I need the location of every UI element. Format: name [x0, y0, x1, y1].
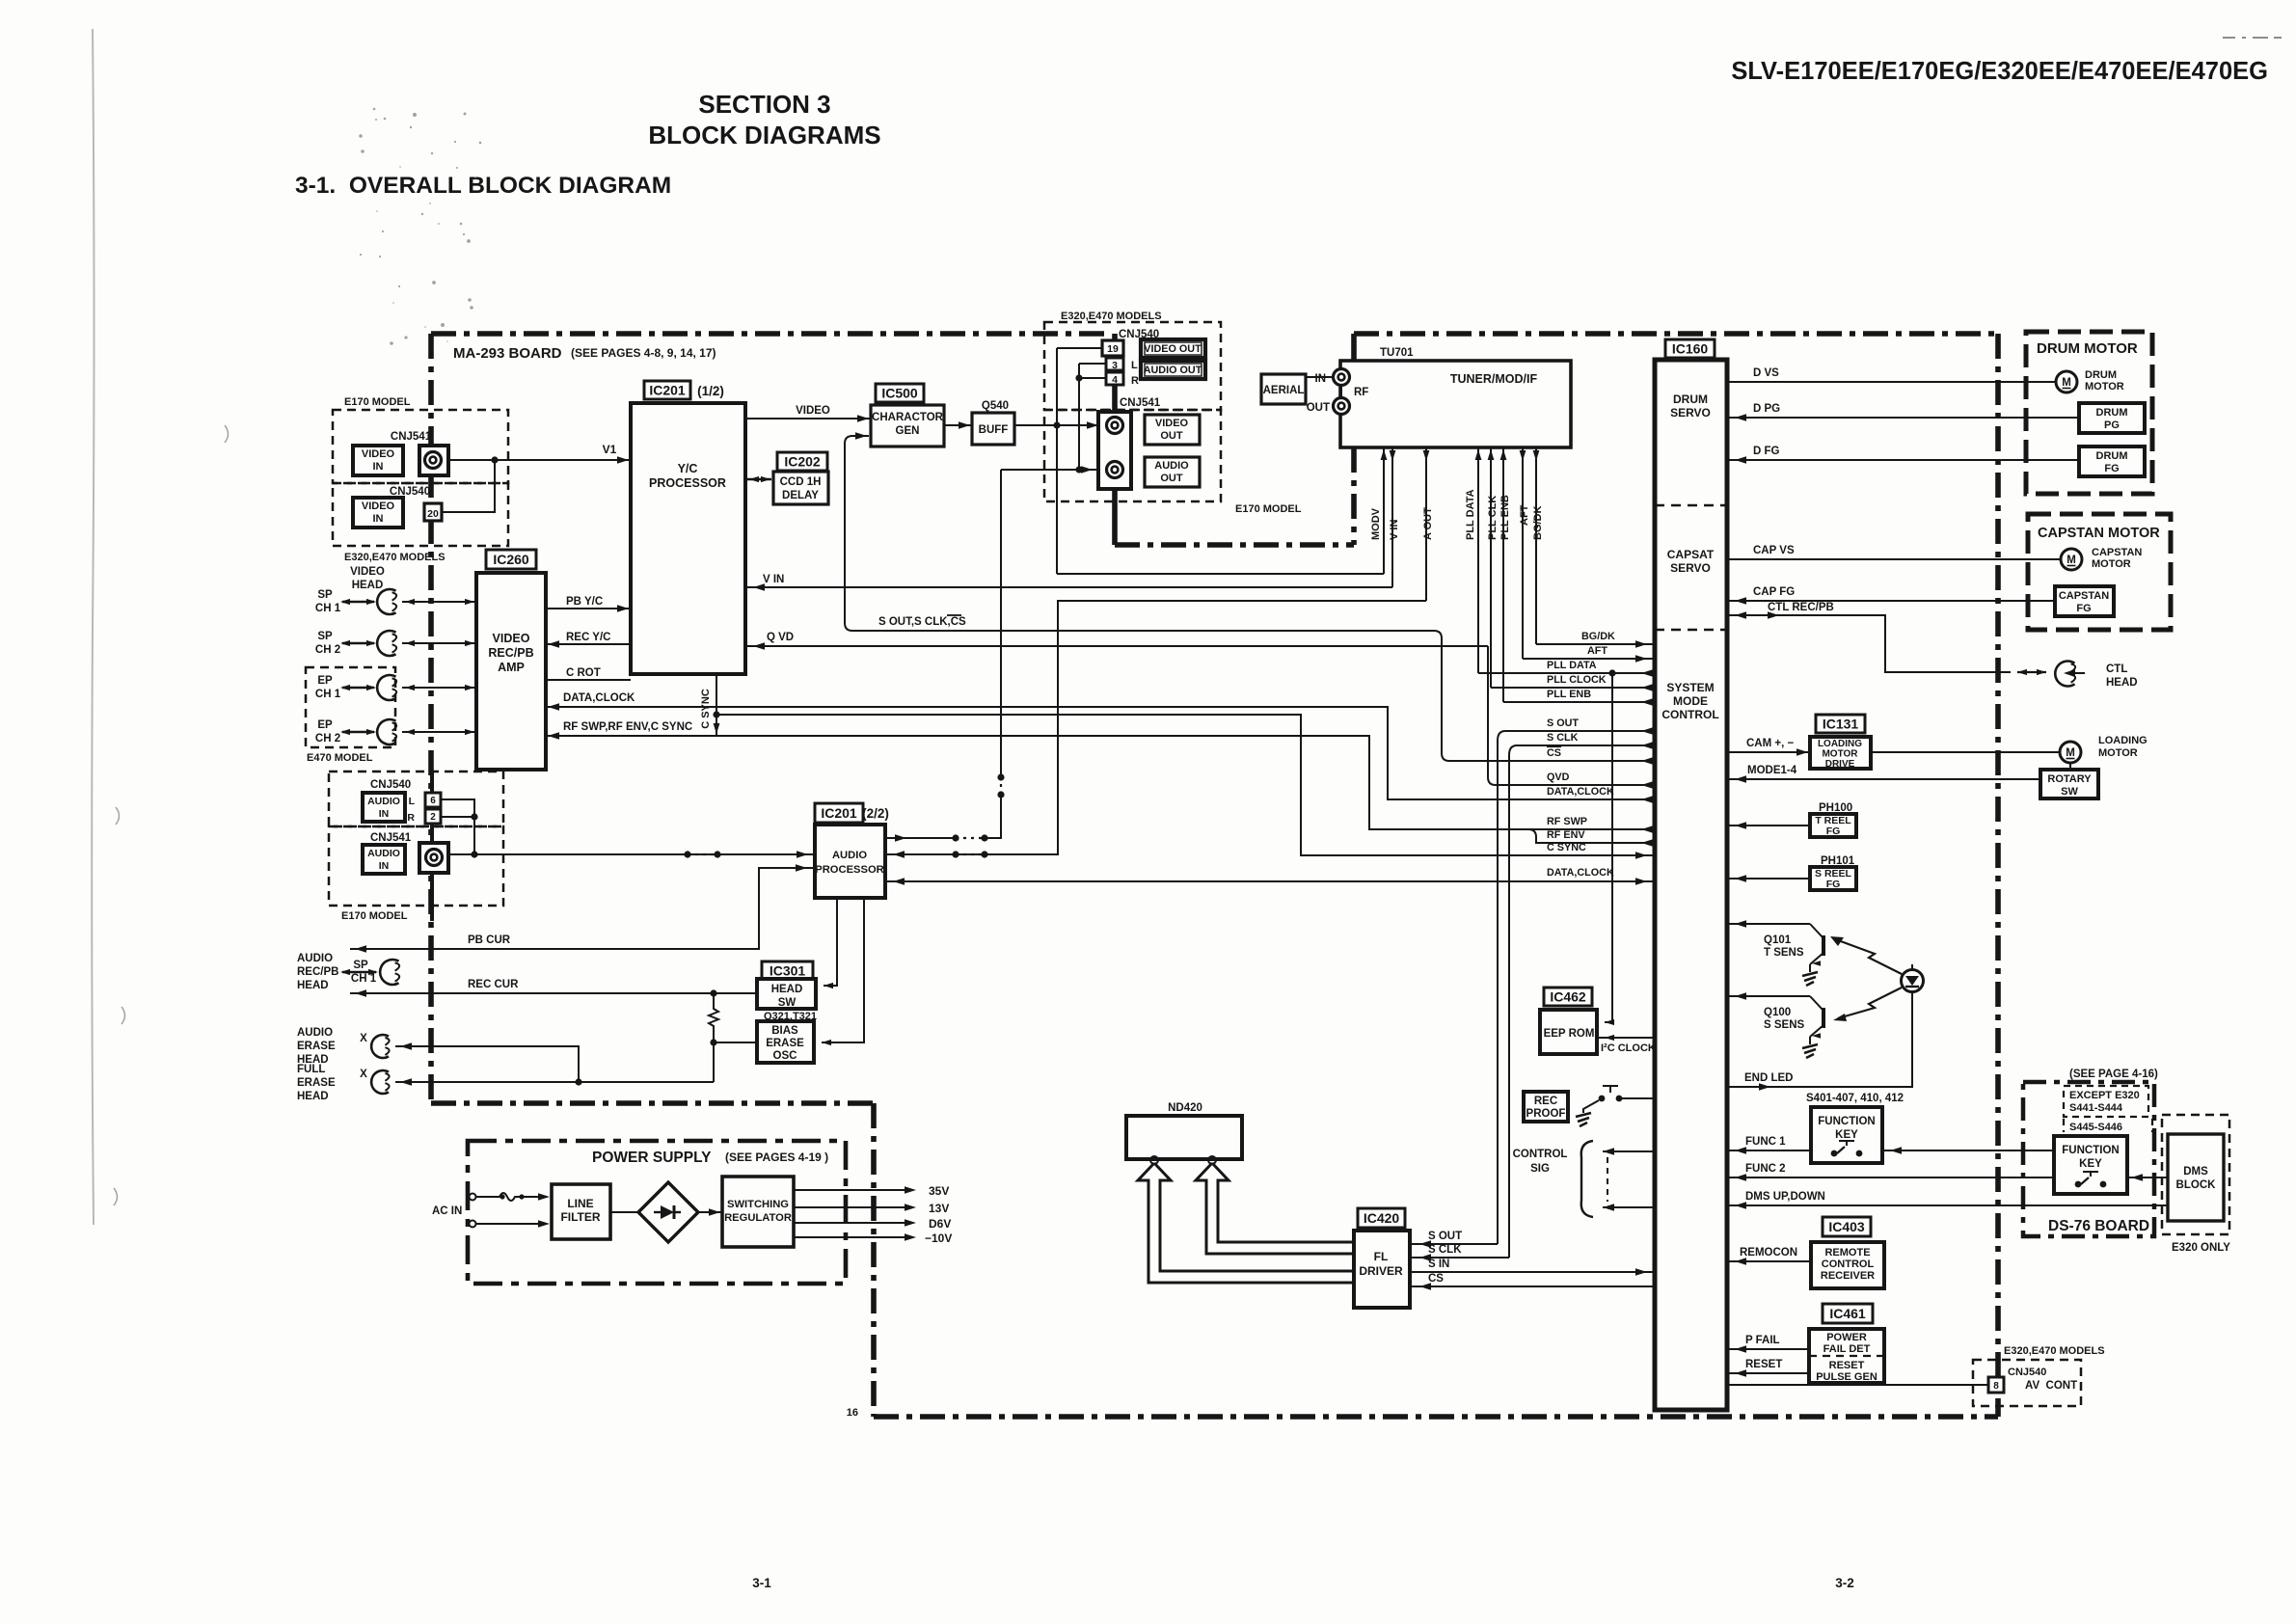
svg-text:AUDIO: AUDIO [1154, 460, 1189, 472]
wire S CLK branch to system control [1509, 745, 1655, 755]
svg-text:CAPSTAN MOTOR: CAPSTAN MOTOR [2038, 526, 2160, 541]
svg-text:RF ENV: RF ENV [1547, 829, 1585, 841]
power output 35V [794, 1189, 911, 1191]
IC202 CCD 1H delay [773, 472, 828, 504]
svg-text:L: L [409, 796, 416, 807]
svg-text:VIDEO: VIDEO [350, 566, 385, 578]
wire loading motor drive to motor [1871, 751, 2060, 753]
svg-text:FG: FG [1826, 826, 1841, 837]
tuner pin PLL ENB [1502, 447, 1504, 702]
svg-text:(SEE PAGE 4-16): (SEE PAGE 4-16) [2069, 1069, 2158, 1080]
svg-text:DRUM MOTOR: DRUM MOTOR [2037, 340, 2138, 357]
wire pin20 to V1 junction [442, 460, 495, 512]
drum PG box [2079, 403, 2145, 433]
wire P FAIL [1727, 1348, 1809, 1350]
MA-293 board border bottom-left vertical [871, 1103, 877, 1417]
svg-text:FUNC 2: FUNC 2 [1745, 1163, 1786, 1175]
svg-text:FAIL DET: FAIL DET [1823, 1343, 1871, 1355]
CTL head symbol [2055, 662, 2074, 687]
svg-text:HEAD: HEAD [297, 980, 329, 991]
wire loading motor to rotary sw [2069, 763, 2071, 770]
svg-text:VIDEO OUT: VIDEO OUT [1144, 343, 1202, 355]
svg-text:REC Y/C: REC Y/C [566, 632, 610, 643]
svg-text:POWER SUPPLY: POWER SUPPLY [592, 1150, 712, 1166]
wire CS to FL driver [1410, 1286, 1655, 1287]
dashed box E170 model video/audio out [1044, 410, 1221, 501]
rotary switch box [2040, 770, 2098, 798]
svg-text:DS-76 BOARD: DS-76 BOARD [2048, 1218, 2149, 1234]
svg-text:IN: IN [373, 461, 384, 473]
svg-text:VIDEO: VIDEO [493, 632, 530, 645]
IC462 EEP ROM [1540, 1010, 1597, 1054]
wire line filter to bridge [610, 1211, 638, 1213]
wire S IN to system control [1410, 1271, 1655, 1273]
svg-text:FG: FG [2076, 603, 2091, 614]
svg-text:AUDIO OUT: AUDIO OUT [1144, 365, 1202, 376]
svg-text:CAPSTAN: CAPSTAN [2059, 590, 2109, 602]
Q540 buffer [972, 413, 1014, 445]
wire AFT to system control [1523, 658, 1655, 660]
svg-text:CH 1: CH 1 [351, 973, 377, 985]
svg-text:CS: CS [1428, 1273, 1444, 1285]
svg-text:VIDEO: VIDEO [1155, 418, 1189, 429]
box VIDEO OUT (CNJ540) [1141, 339, 1205, 358]
LED light ray to Q100 [1838, 988, 1902, 1018]
svg-text:CH 2: CH 2 [315, 644, 340, 656]
svg-text:DMS UP,DOWN: DMS UP,DOWN [1745, 1191, 1825, 1203]
IC461 power fail det / reset pulse gen [1809, 1329, 1884, 1383]
svg-text:R: R [407, 812, 415, 824]
IC160 label [1665, 339, 1715, 358]
svg-text:RECEIVER: RECEIVER [1821, 1270, 1875, 1282]
svg-text:S OUT: S OUT [1547, 717, 1579, 729]
rec proof switch [1599, 1096, 1606, 1102]
wire audio processor to bias osc [822, 898, 864, 1042]
svg-text:DRUM: DRUM [1673, 392, 1708, 406]
capstan FG box [2055, 586, 2114, 616]
ground Q100 [1802, 1044, 1818, 1058]
tuner pin BG/DK [1535, 447, 1537, 644]
svg-text:DRUM: DRUM [2096, 450, 2128, 462]
DMS block box [2168, 1134, 2224, 1221]
svg-text:MA-293 BOARD: MA-293 BOARD [453, 345, 562, 362]
wire S SENS to system control [1727, 995, 1810, 997]
svg-text:BG/DK: BG/DK [1581, 631, 1615, 642]
svg-text:PROCESSOR: PROCESSOR [815, 864, 884, 876]
svg-text:CS: CS [1547, 747, 1561, 759]
scan artifact top-right marks [2223, 37, 2282, 39]
svg-text:LINE: LINE [567, 1197, 593, 1210]
svg-text:VIDEO: VIDEO [796, 405, 830, 417]
svg-text:SWITCHING: SWITCHING [727, 1199, 789, 1210]
IC461 label [1823, 1304, 1873, 1323]
svg-text:BIAS: BIAS [771, 1025, 798, 1037]
wire MODV video to tuner [1057, 573, 1384, 575]
svg-text:AMP: AMP [498, 661, 525, 674]
wire S OUT to FL driver [1410, 1243, 1498, 1245]
svg-text:EP: EP [317, 675, 333, 687]
block arrow FL driver to display left [1138, 1163, 1354, 1283]
svg-text:SYSTEM: SYSTEM [1666, 681, 1714, 694]
wire control sig upper [1603, 1150, 1655, 1152]
box AUDIO IN (CNJ541) [363, 845, 405, 874]
svg-text:IC301: IC301 [770, 963, 806, 979]
svg-text:PB Y/C: PB Y/C [566, 596, 603, 608]
svg-text:IC403: IC403 [1828, 1219, 1865, 1234]
svg-text:POWER: POWER [1826, 1332, 1867, 1343]
svg-text:AFT: AFT [1519, 504, 1530, 526]
svg-text:(SEE PAGES 4-8, 9, 14, 17): (SEE PAGES 4-8, 9, 14, 17) [571, 346, 716, 360]
svg-text:35V: 35V [929, 1184, 949, 1198]
wire D PG [1727, 417, 2079, 419]
svg-text:CNJ541: CNJ541 [1120, 397, 1161, 409]
wire S OUT drop to FL driver [1497, 741, 1499, 1244]
wire audio out to jack line [885, 837, 956, 839]
tuner pin PLL CLK [1490, 447, 1492, 688]
svg-text:AUDIO: AUDIO [832, 850, 867, 861]
svg-text:D PG: D PG [1753, 403, 1780, 415]
TU701 tuner/mod/if [1340, 361, 1571, 447]
wire PB CUR [350, 868, 815, 949]
svg-text:IC462: IC462 [1550, 989, 1586, 1005]
capstan motor M symbol [2061, 549, 2082, 570]
wire S bus from character gen [845, 436, 1655, 761]
svg-text:BG/DK: BG/DK [1532, 506, 1544, 541]
svg-text:CCD 1H: CCD 1H [780, 476, 822, 488]
wire head sw junction to erase line [710, 989, 716, 996]
svg-text:MOTOR: MOTOR [2092, 558, 2131, 570]
DS-76 board dash-dot outline [2023, 1082, 2154, 1236]
wire C SYNC from Y/C [716, 674, 717, 736]
svg-text:Q VD: Q VD [767, 632, 794, 643]
svg-text:MOTOR: MOTOR [2085, 381, 2124, 392]
svg-text:DRIVE: DRIVE [1825, 759, 1855, 770]
svg-text:DELAY: DELAY [782, 490, 819, 501]
svg-text:S OUT,S CLK,CS: S OUT,S CLK,CS [878, 616, 966, 628]
svg-text:I²C CLOCK: I²C CLOCK [1601, 1042, 1656, 1054]
wire REC CUR [350, 992, 757, 994]
svg-text:DRIVER: DRIVER [1359, 1264, 1403, 1278]
svg-text:16: 16 [847, 1407, 858, 1419]
svg-text:CAP FG: CAP FG [1753, 586, 1795, 598]
svg-text:RESET: RESET [1745, 1359, 1782, 1370]
wire DATA,CLOCK amp to system control [546, 707, 1655, 799]
svg-text:D FG: D FG [1753, 446, 1780, 457]
svg-text:LOADING: LOADING [1818, 739, 1862, 749]
connector CNJ541 output jacks [1098, 412, 1131, 489]
svg-text:ROTARY: ROTARY [2047, 773, 2092, 785]
svg-text:ERASE: ERASE [297, 1077, 336, 1089]
svg-text:IC201: IC201 [821, 805, 857, 821]
IC420 FL driver [1354, 1231, 1410, 1308]
pin 20 box [424, 503, 442, 521]
wire S OUT branch to system control [1498, 731, 1655, 741]
svg-text:Q100: Q100 [1764, 1007, 1791, 1018]
svg-text:EP: EP [317, 719, 333, 731]
svg-text:E320,E470 MODELS: E320,E470 MODELS [344, 552, 446, 563]
wire PLL DATA [1478, 672, 1655, 674]
capstan/system dashed separator [1655, 629, 1727, 632]
wire PLL ENB [1503, 701, 1655, 703]
svg-text:CH 1: CH 1 [315, 603, 341, 614]
svg-text:A OUT: A OUT [1422, 507, 1434, 540]
svg-text:S441-S444: S441-S444 [2069, 1102, 2123, 1114]
svg-text:IN: IN [1315, 373, 1327, 385]
svg-text:V1: V1 [603, 443, 617, 456]
pin 8 box AV [1988, 1377, 2004, 1393]
svg-text:PLL ENB: PLL ENB [1547, 689, 1591, 700]
svg-text:E470 MODEL: E470 MODEL [307, 752, 373, 764]
power output D6V [794, 1222, 911, 1224]
svg-text:IC131: IC131 [1823, 717, 1859, 732]
wire CAP FG [1727, 600, 2055, 602]
svg-text:REC CUR: REC CUR [468, 979, 519, 990]
svg-text:REC: REC [1534, 1096, 1557, 1107]
wire audio erase head [395, 1046, 579, 1082]
svg-text:PLL CLK: PLL CLK [1487, 496, 1499, 540]
svg-text:Q540: Q540 [982, 400, 1009, 412]
IC201 audio processor [815, 825, 885, 898]
loading motor M symbol [2060, 742, 2081, 763]
svg-text:PLL ENB: PLL ENB [1499, 495, 1511, 540]
pin column stub [1113, 385, 1117, 412]
svg-text:CNJ541: CNJ541 [370, 832, 412, 844]
svg-text:4: 4 [1112, 374, 1118, 386]
line filter box [552, 1184, 610, 1239]
IC202 label [777, 452, 827, 471]
svg-text:KEY: KEY [2079, 1158, 2102, 1170]
AC input terminals and fuse [470, 1194, 476, 1201]
svg-text:OUT: OUT [1160, 473, 1183, 484]
svg-text:AUDIO: AUDIO [297, 1027, 333, 1039]
scan artifact left margin line [92, 29, 94, 1225]
wire FUNC 1 [1727, 1150, 1811, 1151]
wire T SENS to system control [1727, 923, 1810, 925]
box VIDEO IN (CNJ540) [353, 498, 403, 528]
svg-text:−10V: −10V [925, 1232, 952, 1245]
MA-293 board border left side [428, 334, 434, 1103]
dashed box E170 model audio in [329, 826, 503, 906]
wire DMS block to function key [2127, 1177, 2168, 1178]
svg-text:E170 MODEL: E170 MODEL [344, 396, 411, 408]
power output -10V [794, 1236, 911, 1238]
svg-text:T SENS: T SENS [1764, 947, 1804, 959]
wire audio out jack line [1001, 469, 1100, 471]
switching regulator box [722, 1177, 794, 1247]
wire DMS UP,DOWN [1727, 1204, 2168, 1206]
wire AV CONT [1727, 1384, 1988, 1386]
svg-text:AUDIO: AUDIO [367, 796, 400, 807]
svg-text:RF: RF [1354, 387, 1368, 398]
svg-text:CONTROL: CONTROL [1822, 1259, 1875, 1270]
tuner pin V IN [1391, 447, 1393, 587]
wire Q VD [745, 645, 1488, 647]
svg-text:ND420: ND420 [1168, 1102, 1202, 1114]
wire audio in to audio processor [448, 853, 816, 855]
wire pins L/R to audio jack [1079, 363, 1106, 365]
drum motor dashed box [2026, 332, 2152, 494]
svg-text:IC160: IC160 [1672, 341, 1709, 357]
tuner pin PLL DATA [1477, 447, 1479, 673]
svg-text:RESET: RESET [1829, 1360, 1865, 1371]
svg-text:L: L [1131, 360, 1138, 371]
svg-text:S CLK: S CLK [1547, 732, 1579, 744]
svg-text:FULL: FULL [297, 1064, 325, 1075]
svg-text:V IN: V IN [1389, 520, 1400, 540]
svg-text:REMOCON: REMOCON [1740, 1247, 1797, 1259]
svg-text:IC420: IC420 [1364, 1210, 1400, 1226]
DMS block dashed outline [2162, 1115, 2229, 1234]
svg-text:AFT: AFT [1587, 645, 1607, 657]
box AUDIO OUT (CNJ541) [1145, 457, 1200, 487]
svg-text:IC202: IC202 [784, 454, 821, 470]
svg-text:R: R [1131, 375, 1139, 387]
IC201 Y/C processor [631, 403, 745, 674]
svg-text:AUDIO: AUDIO [367, 848, 400, 859]
svg-text:FG: FG [2104, 463, 2119, 474]
IC160 system control / servo block [1655, 360, 1727, 1410]
wire RESET [1727, 1372, 1809, 1374]
LED light ray to Q101 [1838, 940, 1902, 974]
wire FUNC 2 [1727, 1177, 2054, 1178]
pin 4 box [1106, 372, 1123, 385]
wire audio vertical to jack [1000, 470, 1002, 777]
function key box left [1811, 1107, 1882, 1163]
except E320 dashed box [2064, 1086, 2148, 1117]
svg-text:SP: SP [317, 631, 333, 642]
svg-text:IC260: IC260 [493, 552, 529, 567]
svg-text:IN: IN [379, 860, 390, 872]
svg-text:BLOCK DIAGRAMS: BLOCK DIAGRAMS [648, 121, 880, 149]
svg-text:CONTROL: CONTROL [1513, 1149, 1568, 1160]
MA-293 board border top-right segment [1354, 331, 1998, 337]
svg-text:FUNCTION: FUNCTION [2062, 1145, 2119, 1156]
IC260 video rec/pb amp [476, 573, 546, 770]
connector CNJ541 video in jack [419, 446, 448, 475]
svg-text:CNJ540: CNJ540 [2008, 1367, 2046, 1378]
svg-text:ERASE: ERASE [766, 1038, 804, 1049]
box VIDEO OUT (CNJ541) [1145, 415, 1200, 445]
svg-text:AERIAL: AERIAL [1263, 385, 1305, 396]
svg-text:(2/2): (2/2) [862, 806, 889, 821]
svg-text:QVD: QVD [1547, 771, 1570, 783]
svg-text:CH 1: CH 1 [315, 689, 341, 700]
svg-text:IN: IN [379, 808, 390, 820]
IC462 label [1544, 988, 1592, 1006]
svg-text:D VS: D VS [1753, 367, 1779, 379]
svg-text:IC201: IC201 [649, 383, 686, 398]
dashed box E170 model video in [333, 410, 508, 483]
svg-text:FG: FG [1826, 879, 1841, 890]
wire DATA,CLOCK audio processor to system control [885, 880, 1655, 882]
svg-text:CHARACTOR: CHARACTOR [872, 412, 944, 423]
svg-text:3: 3 [1112, 360, 1118, 371]
wire RF ENV branch [1528, 829, 1655, 843]
svg-text:(1/2): (1/2) [697, 384, 724, 398]
svg-text:3-1. OVERALL BLOCK DIAGRAM: 3-1. OVERALL BLOCK DIAGRAM [295, 173, 671, 199]
dashed box E320/E470 models audio in [329, 771, 503, 826]
wire control sig lower [1603, 1206, 1655, 1208]
svg-text:M: M [2066, 747, 2075, 759]
wire V IN tuner to Y/C [745, 586, 1392, 588]
wire S REEL FG [1727, 878, 1810, 880]
svg-text:MOTOR: MOTOR [1822, 749, 1858, 760]
wire RF SWP,RF ENV,C SYNC to amp [546, 736, 1655, 829]
wire A OUT tuner to audio processor [885, 601, 1426, 854]
AERIAL box [1261, 374, 1306, 404]
pin 2 box audio [425, 809, 441, 824]
svg-text:REC/PB: REC/PB [488, 646, 533, 660]
wire A OUT dotted segment [952, 851, 959, 857]
svg-text:PLL DATA: PLL DATA [1547, 660, 1597, 671]
bias erase oscillator [757, 1021, 814, 1063]
svg-text:20: 20 [427, 508, 439, 520]
svg-text:TU701: TU701 [1380, 347, 1414, 359]
power supply dash-dot box [468, 1141, 846, 1284]
dashed box E320/E470 models video/audio out [1044, 322, 1221, 410]
IC201 (1/2) label [644, 381, 690, 399]
wire D FG [1727, 459, 2079, 461]
svg-text:CAP VS: CAP VS [1753, 545, 1795, 556]
svg-text:AUDIO: AUDIO [297, 953, 333, 964]
scan artifact specks [114, 108, 481, 1205]
wire bridge to switching regulator [698, 1211, 722, 1213]
connector CNJ541 audio jack [419, 843, 448, 873]
svg-text:Y/C: Y/C [678, 462, 698, 475]
svg-text:OUT: OUT [1307, 402, 1330, 414]
wire character gen to buffer [944, 424, 972, 426]
svg-text:CAM +, −: CAM +, − [1746, 738, 1794, 749]
svg-text:PULSE GEN: PULSE GEN [1816, 1371, 1877, 1383]
box AUDIO IN (CNJ540) [363, 793, 405, 822]
svg-text:E320 ONLY: E320 ONLY [2172, 1242, 2230, 1254]
svg-text:13V: 13V [929, 1202, 949, 1215]
svg-text:VIDEO: VIDEO [362, 448, 395, 460]
svg-text:DATA,CLOCK: DATA,CLOCK [1547, 786, 1614, 798]
ND420 fluorescent display box [1126, 1116, 1242, 1159]
tuner pin A OUT [1425, 447, 1427, 601]
function key box right [2054, 1136, 2127, 1194]
svg-text:19: 19 [1107, 343, 1119, 355]
svg-text:FILTER: FILTER [560, 1210, 600, 1224]
svg-text:6: 6 [430, 796, 436, 806]
wire BG/DK to system control [1536, 643, 1655, 645]
block arrow FL driver to display right [1196, 1163, 1354, 1254]
wire END LED [1727, 991, 1912, 1087]
svg-text:CH 2: CH 2 [315, 733, 340, 744]
svg-text:SIG: SIG [1530, 1163, 1550, 1175]
IC131 loading motor drive [1810, 737, 1871, 769]
svg-text:P FAIL: P FAIL [1745, 1335, 1780, 1346]
MA-293 board border lower-left horizontal [431, 1100, 874, 1106]
control sig bracket [1581, 1141, 1593, 1217]
svg-text:GEN: GEN [896, 425, 920, 437]
svg-text:PLL CLOCK: PLL CLOCK [1547, 674, 1607, 686]
svg-text:D6V: D6V [929, 1217, 951, 1231]
wire CAP VS [1727, 558, 2061, 560]
wire buffer to video out jack [1014, 424, 1106, 426]
svg-text:DMS: DMS [2183, 1166, 2208, 1177]
svg-text:REMOTE: REMOTE [1824, 1247, 1870, 1259]
power output 13V [794, 1206, 911, 1208]
svg-text:CNJ541: CNJ541 [391, 431, 432, 443]
svg-text:END LED: END LED [1744, 1072, 1793, 1084]
wire audio processor to head sw [824, 898, 837, 986]
svg-text:HEAD: HEAD [2106, 677, 2138, 689]
svg-text:E170 MODEL: E170 MODEL [341, 910, 408, 922]
wire CTL REC/PB [1727, 615, 2011, 672]
svg-text:2: 2 [430, 812, 436, 823]
